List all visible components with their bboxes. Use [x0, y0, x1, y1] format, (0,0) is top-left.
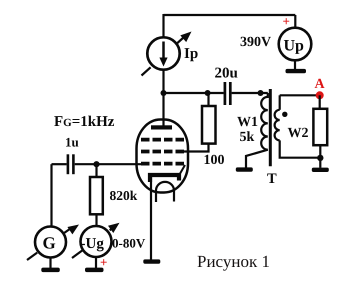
wire Up drop [294, 15, 296, 28]
wire load bottom lead [319, 145, 321, 158]
svg-text:390V: 390V [240, 35, 271, 50]
svg-text:Up: Up [284, 38, 305, 55]
ground bar load [312, 168, 329, 172]
wire 820k top lead [95, 164, 97, 177]
generator G circle [35, 227, 66, 258]
ground bar under Up [286, 69, 307, 73]
node W1 polarity dot [258, 90, 264, 96]
wire 100 top lead [207, 93, 209, 106]
resistor R load [313, 109, 327, 145]
Ip adjust diagonal arrow [142, 38, 184, 76]
node junction grid/820k [93, 161, 99, 167]
Ip inner down arrow [162, 42, 165, 60]
svg-text:0-80V: 0-80V [112, 236, 146, 251]
capacitor C 20u [224, 82, 227, 105]
transformer core [269, 89, 272, 166]
wire G stem [49, 258, 51, 269]
tube grid g2 row [141, 150, 184, 154]
tube g1-cathode tie diagonal [180, 165, 186, 175]
ground bar W1 [236, 167, 253, 171]
svg-text:W1: W1 [237, 115, 258, 130]
svg-text:820k: 820k [110, 188, 138, 203]
tube cathode bracket [150, 175, 179, 182]
wire input to grid [75, 163, 142, 165]
svg-text:T: T [267, 171, 277, 187]
wire anode lead [162, 93, 164, 126]
wire Up stem [294, 60, 296, 69]
svg-text:+: + [283, 14, 290, 29]
wire 820k to -Ug [95, 214, 97, 226]
svg-text:G: G [43, 234, 56, 253]
transformer W2 winding [275, 110, 280, 141]
wire Ip bottom lead [162, 70, 164, 94]
wire W1 bottom lead [246, 150, 268, 168]
svg-text:W2: W2 [288, 126, 309, 141]
wire input left segment [52, 163, 67, 165]
svg-text:Ip: Ip [184, 46, 198, 62]
current meter Ip circle [147, 37, 179, 69]
ground bar cathode [143, 259, 160, 263]
wire W2 bottom lead [280, 140, 321, 157]
wire W2 top lead [279, 95, 281, 110]
ground bar under G [41, 268, 60, 273]
wire cathode lead [150, 177, 152, 260]
svg-text:FG=1kHz: FG=1kHz [54, 114, 115, 130]
tube heater [156, 182, 174, 202]
wire anode rail [164, 92, 224, 94]
svg-text:-Ug: -Ug [81, 236, 105, 252]
svg-text:A: A [315, 77, 326, 92]
wire load ground stem [319, 158, 321, 168]
tube grid g3 row [141, 138, 184, 142]
transformer W1 winding [261, 93, 268, 150]
tube grid g1 row [141, 162, 184, 166]
node A red dot [316, 91, 324, 99]
source -Ug circle [81, 226, 112, 257]
svg-text:5k: 5k [240, 130, 255, 145]
wire A rail [280, 94, 320, 96]
G adjust diagonal arrow [27, 229, 71, 261]
svg-text:Рисунок 1: Рисунок 1 [197, 252, 270, 271]
wire load top lead [319, 95, 321, 109]
node junction load/W2 [317, 155, 323, 161]
svg-text:100: 100 [204, 153, 225, 168]
capacitor C 1u [67, 154, 70, 174]
tube V1 envelope [137, 120, 189, 193]
svg-text:+: + [100, 255, 107, 270]
voltmeter Up circle [279, 28, 312, 61]
svg-text:1u: 1u [65, 135, 79, 150]
wire screen grid to 100 resistor [184, 144, 209, 152]
-Ug adjust diagonal arrow [72, 229, 112, 259]
wire cap to transformer [232, 92, 268, 94]
ground bar under -Ug [85, 268, 104, 273]
resistor R 820k [90, 177, 103, 214]
wire top B+ rail [164, 14, 296, 16]
tube anode plate bar [151, 125, 172, 129]
svg-text:20u: 20u [215, 66, 238, 82]
node junction 100-ohm tap [205, 90, 211, 96]
node W2 polarity dot [282, 112, 287, 117]
wire -Ug stem [95, 257, 97, 268]
resistor R 100 [202, 106, 216, 144]
node junction anode/Ip [161, 90, 167, 96]
wire G drop [50, 164, 52, 227]
wire Ip top lead [162, 14, 164, 38]
